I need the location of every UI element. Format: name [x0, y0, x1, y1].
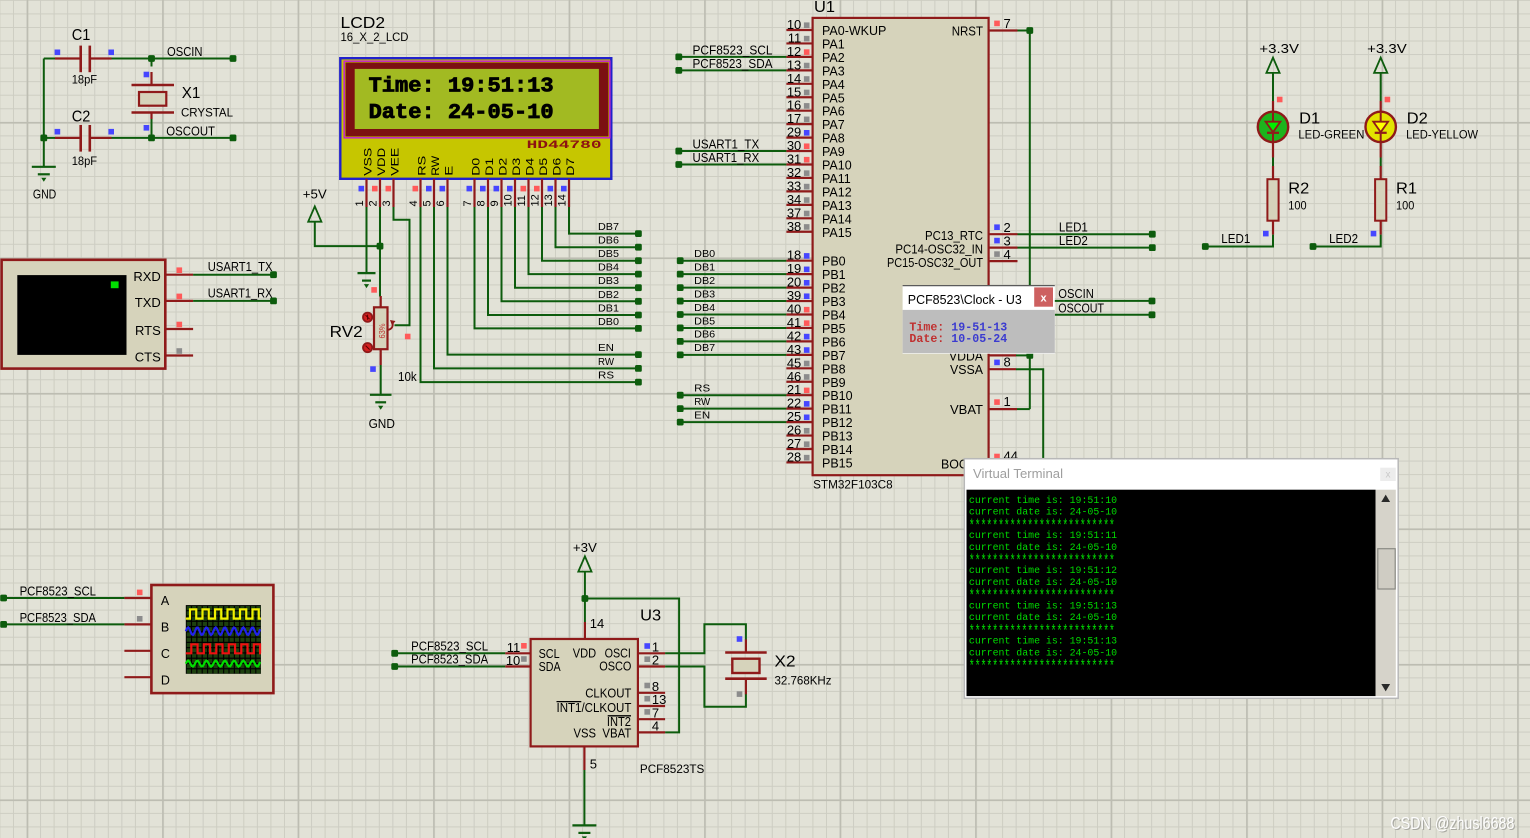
U1 pin 3 marker — [994, 238, 1000, 244]
wire USART1_TX to U1 PA9 — [679, 150, 787, 152]
svg-text:DB3: DB3 — [598, 275, 619, 287]
svg-text:100: 100 — [1396, 201, 1414, 213]
svg-text:PA6: PA6 — [822, 105, 845, 119]
svg-text:PB13: PB13 — [822, 430, 853, 444]
RV2 bottom pin marker — [370, 366, 376, 372]
wire OSCO to X2 bottom — [665, 667, 746, 707]
svg-text:RS: RS — [417, 156, 429, 176]
U1 pin 40 stub (PB4) — [786, 313, 812, 315]
LCD2 pin 3 marker — [386, 186, 392, 192]
svg-text:LED2: LED2 — [1059, 234, 1088, 248]
R1 bottom marker — [1371, 231, 1377, 237]
svg-text:D2: D2 — [1407, 111, 1428, 128]
svg-text:PB6: PB6 — [822, 335, 846, 349]
X2 top pin marker — [737, 636, 743, 642]
terminal pin marker TXD — [177, 294, 183, 300]
U1 pin 11 stub (PA1) — [786, 42, 812, 44]
svg-text:9: 9 — [489, 200, 501, 206]
svg-text:PB4: PB4 — [822, 309, 846, 323]
svg-text:4: 4 — [652, 719, 659, 734]
oscilloscope trace D green — [186, 661, 260, 667]
svg-text:+5V: +5V — [303, 187, 328, 201]
terminal pin marker RTS — [177, 322, 183, 328]
crystal X1 — [132, 59, 175, 138]
wire DB7 from LCD pin — [569, 207, 638, 234]
node RS wire start right fan — [677, 392, 684, 399]
U1 pin 33 stub (PA12) — [786, 190, 812, 192]
svg-text:38: 38 — [787, 219, 801, 234]
svg-text:x: x — [1041, 292, 1048, 304]
svg-text:C: C — [161, 647, 170, 661]
U1 pin 45 marker — [804, 361, 810, 367]
svg-text:PA14: PA14 — [822, 212, 852, 226]
U3 pin 1 marker — [644, 643, 650, 649]
node OSCIN wire end near U1 — [1149, 298, 1156, 305]
U1 pin 2 stub (PC13) — [989, 233, 1018, 235]
wire USART1_RX to U1 PA10 — [679, 164, 787, 166]
capacitor C2 — [55, 125, 112, 152]
svg-text:current date is: 24-05-10: current date is: 24-05-10 — [969, 647, 1117, 658]
RV2 knob top — [363, 313, 372, 322]
node OSCIN wire end — [230, 55, 237, 62]
LCD2 pin 8 stub — [487, 179, 489, 207]
svg-text:RW: RW — [430, 155, 442, 176]
svg-text:D5: D5 — [538, 158, 550, 176]
svg-text:GND: GND — [33, 188, 56, 202]
svg-text:6: 6 — [435, 200, 447, 206]
svg-text:5: 5 — [590, 757, 597, 772]
svg-text:PB1: PB1 — [822, 268, 846, 282]
svg-text:current time is: 19:51:13: current time is: 19:51:13 — [969, 601, 1117, 612]
wire VBAT to rail — [1017, 408, 1030, 410]
svg-text:*************************: ************************* — [969, 658, 1115, 677]
U1 pin 31 stub (PA10) — [786, 163, 812, 165]
svg-text:PB5: PB5 — [822, 322, 846, 336]
svg-text:14: 14 — [590, 616, 604, 631]
svg-text:OSCO: OSCO — [599, 660, 631, 674]
wire PCF8523_SDA to U3 SDA — [395, 666, 506, 668]
svg-text:PA10: PA10 — [822, 159, 852, 173]
svg-text:10-05-24: 10-05-24 — [951, 333, 1007, 346]
svg-text:PB8: PB8 — [822, 362, 846, 376]
svg-text:CSDN @zhusl6688: CSDN @zhusl6688 — [1390, 813, 1514, 833]
U1 pin 22 stub (PB11) — [786, 408, 812, 410]
svg-text:D: D — [161, 674, 170, 688]
LCD2 pin 7 marker — [467, 186, 473, 192]
svg-text:LED-YELLOW: LED-YELLOW — [1406, 130, 1478, 142]
LCD2 pin 1 marker — [359, 186, 365, 192]
C1 pin marker left — [55, 50, 61, 56]
U1 pin 32 marker — [804, 170, 810, 176]
svg-text:OSCI: OSCI — [605, 646, 631, 660]
terminal pin stub RTS — [165, 328, 193, 330]
U1 pin 20 marker — [804, 280, 810, 286]
svg-text:current date is: 24-05-10: current date is: 24-05-10 — [969, 542, 1117, 553]
terminal pin marker RXD — [177, 267, 183, 273]
svg-text:PA12: PA12 — [822, 185, 852, 199]
U1 pin 17 marker — [804, 117, 810, 123]
svg-text:RS: RS — [598, 370, 614, 382]
wire VSSA down — [1016, 369, 1043, 458]
svg-text:DB2: DB2 — [694, 275, 715, 287]
wire DB7 to U1 — [680, 354, 786, 356]
node USART1_RX wire end — [270, 298, 277, 305]
svg-text:EN: EN — [598, 342, 614, 354]
wire DB1 from LCD pin — [488, 207, 638, 315]
node EN wire start right fan — [677, 419, 684, 426]
virtual terminal text lines — [969, 495, 1117, 677]
svg-text:1: 1 — [354, 200, 366, 206]
wire RW from LCD pin — [434, 207, 638, 368]
svg-text:13: 13 — [543, 194, 555, 206]
svg-text:EN: EN — [694, 409, 710, 421]
virtual terminal window frame — [964, 459, 1398, 699]
U1 pin 27 stub (PB14) — [786, 448, 812, 450]
svg-text:R1: R1 — [1396, 181, 1417, 198]
LCD2 pin 14 stub — [568, 179, 570, 207]
svg-text:DB6: DB6 — [694, 329, 715, 341]
svg-text:VEE: VEE — [390, 148, 402, 176]
svg-text:PB7: PB7 — [822, 349, 846, 363]
svg-text:GND: GND — [369, 417, 395, 431]
U3 pin 10 marker — [521, 656, 527, 662]
svg-text:X2: X2 — [775, 654, 796, 671]
wire C2 to OSCOUT junction — [112, 137, 152, 139]
U1 pin 4 stub (PC15) — [989, 260, 1018, 262]
oscilloscope pin stub C — [124, 650, 151, 652]
wire VDD rail vertical — [1029, 31, 1031, 410]
svg-text:D3: D3 — [511, 158, 523, 176]
C2 pin marker right — [108, 129, 114, 135]
svg-text:DB7: DB7 — [694, 342, 715, 354]
svg-text:PA1: PA1 — [822, 37, 845, 51]
U1 pin 39 marker — [804, 293, 810, 299]
svg-text:LED-GREEN: LED-GREEN — [1298, 130, 1364, 142]
power +3.3V arrow for D2 — [1374, 58, 1387, 73]
node PCF8523_SDA wire start at U1 — [675, 67, 682, 74]
node junction left rail at C2 — [40, 135, 47, 142]
svg-text:PCF8523_SCL: PCF8523_SCL — [20, 584, 96, 598]
svg-text:D7: D7 — [565, 158, 577, 176]
svg-text:OSCOUT: OSCOUT — [166, 125, 215, 139]
oscilloscope trace B blue — [186, 627, 260, 635]
wire DB4 to U1 — [680, 314, 786, 316]
svg-text:USART1_RX: USART1_RX — [693, 151, 760, 165]
svg-text:current time is: 19:51:11: current time is: 19:51:11 — [969, 530, 1117, 541]
U1 pin 21 stub (PB10) — [786, 394, 812, 396]
virtual terminal close button — [1380, 468, 1396, 481]
U1 pin 41 marker — [804, 320, 810, 326]
U1 pin 44 marker — [994, 454, 1000, 460]
U1 pin 2 marker — [994, 224, 1000, 230]
wire USART1_RX from terminal TXD — [193, 300, 273, 302]
svg-text:VBAT: VBAT — [602, 727, 631, 741]
LCD2 pin 1 stub — [365, 179, 367, 207]
RV2 wiper marker — [405, 334, 411, 340]
svg-text:32.768KHz: 32.768KHz — [775, 676, 832, 688]
wire DB2 from LCD pin — [502, 207, 639, 301]
LCD2 bezel magenta edge — [344, 61, 610, 138]
power +3V arrow — [578, 556, 591, 571]
U3 pin 10 stub (SDA) — [505, 665, 530, 667]
svg-text:VSS: VSS — [574, 727, 597, 741]
svg-text:C2: C2 — [72, 109, 91, 126]
LCD2 pin 13 stub — [554, 179, 556, 207]
svg-text:CLKOUT: CLKOUT — [585, 686, 632, 700]
svg-text:PCF8523_SDA: PCF8523_SDA — [20, 611, 97, 625]
svg-text:PB3: PB3 — [822, 295, 846, 309]
svg-text:VDD: VDD — [573, 646, 596, 660]
svg-text:DB5: DB5 — [598, 248, 619, 260]
U1 pin 20 stub (PB2) — [786, 287, 812, 289]
U3 pin 8 marker — [644, 683, 650, 689]
svg-text:63%: 63% — [378, 324, 387, 339]
U1 pin 29 marker — [804, 130, 810, 136]
svg-text:5: 5 — [422, 200, 434, 206]
LCD2 pin 5 stub — [433, 179, 435, 207]
popup window PCF8523 Clock - U3 — [903, 285, 1055, 354]
wire PCF8523_SDA to U1 PA3 — [679, 69, 787, 71]
svg-text:PA11: PA11 — [822, 172, 851, 186]
U1 pin 26 stub (PB13) — [786, 434, 812, 436]
svg-text:14: 14 — [557, 194, 569, 206]
crystal X2 — [725, 639, 767, 694]
node DB0 wire start right fan — [677, 257, 684, 264]
svg-text:18pF: 18pF — [72, 156, 97, 168]
LCD2 pin 13 marker — [548, 186, 554, 192]
wire OSCI to X2 top — [665, 624, 746, 653]
C2 pin marker left — [55, 129, 61, 135]
U1 pin 28 marker — [804, 455, 810, 461]
svg-text:VSSA: VSSA — [950, 363, 984, 377]
U1 pin 40 marker — [804, 307, 810, 313]
U1 pin 13 marker — [804, 63, 810, 69]
U3 pin 13 stub — [638, 705, 665, 707]
wire DB6 to U1 — [680, 340, 786, 342]
svg-text:7: 7 — [1004, 16, 1011, 31]
U1 pin 22 marker — [804, 401, 810, 407]
C1 pin marker right — [108, 50, 114, 56]
U1 pin 45 stub (PB8) — [786, 367, 812, 369]
U1 pin 12 stub (PA2) — [786, 56, 812, 58]
node LED2 wire start — [1310, 243, 1317, 250]
U1 pin 32 stub (PA11) — [786, 177, 812, 179]
U1 pin 43 stub (PB7) — [786, 354, 812, 356]
wire RW to U1 — [680, 408, 786, 410]
U1 pin 29 stub (PA8) — [786, 137, 812, 139]
svg-text:DB3: DB3 — [694, 288, 715, 300]
svg-text:current date is: 24-05-10: current date is: 24-05-10 — [969, 507, 1117, 518]
svg-text:RV2: RV2 — [330, 324, 363, 341]
U1 pin 4 marker — [994, 251, 1000, 257]
wire LCD VEE pin3 to RV2 wiper — [394, 207, 410, 325]
wire OSCOUT stub near U1 — [1053, 314, 1150, 316]
svg-text:RW: RW — [598, 356, 614, 368]
node DB1 wire start right fan — [677, 271, 684, 278]
node +3V junction — [582, 595, 589, 602]
svg-text:DB6: DB6 — [598, 235, 619, 247]
svg-text:PB10: PB10 — [822, 389, 853, 403]
U1 pin stub VDDA — [989, 354, 1016, 356]
U1 pin 8 stub (VSSA) — [989, 368, 1016, 370]
svg-text:PB2: PB2 — [822, 282, 846, 296]
svg-text:current date is: 24-05-10: current date is: 24-05-10 — [969, 577, 1117, 588]
U1 pin 13 stub (PA3) — [786, 69, 812, 71]
svg-text:PB12: PB12 — [822, 416, 853, 430]
LCD2 pin 4 marker — [413, 186, 419, 192]
svg-text:PB9: PB9 — [822, 376, 846, 390]
LCD2 pin 7 stub — [473, 179, 475, 207]
U1 pin 46 stub (PB9) — [786, 381, 812, 383]
scope A pin marker — [137, 590, 143, 596]
LCD2 pin 9 stub — [500, 179, 502, 207]
U1 pin 37 stub (PA14) — [786, 217, 812, 219]
wire PCF8523_SCL to U3 SCL — [395, 652, 506, 654]
node DB1 wire end left fan — [635, 312, 642, 319]
U1 pin 42 marker — [804, 334, 810, 340]
D2 top pin marker — [1385, 97, 1391, 103]
svg-text:18pF: 18pF — [72, 75, 97, 87]
node OSCOUT wire end — [230, 135, 237, 142]
wire LED1 elbow to R2 — [1205, 235, 1273, 247]
wire NRST to vertical rail — [1018, 30, 1030, 32]
LCD2 pin 2 stub — [379, 179, 381, 207]
svg-text:E: E — [444, 166, 456, 176]
ground symbol below RV2 — [370, 395, 392, 403]
terminal pin stub RXD — [165, 274, 193, 276]
svg-text:VDD: VDD — [376, 148, 388, 176]
U1 pin 31 marker — [804, 157, 810, 163]
svg-text:USART1_TX: USART1_TX — [693, 138, 760, 152]
svg-text:RW: RW — [694, 396, 710, 408]
node VDDA rail junction — [1026, 352, 1033, 359]
svg-text:TXD: TXD — [135, 295, 161, 310]
ground symbol for LCD VSS — [358, 273, 376, 281]
terminal pin marker CTS — [177, 348, 183, 354]
X1 pin marker bottom — [144, 125, 150, 131]
svg-text:DB5: DB5 — [694, 315, 715, 327]
wire RS to U1 — [680, 394, 786, 396]
svg-text:28: 28 — [787, 449, 801, 464]
RV2 wiper arrow — [388, 322, 393, 331]
svg-text:1: 1 — [1004, 394, 1011, 409]
svg-text:HD44780: HD44780 — [527, 140, 602, 152]
node PCF8523_SCL wire start left — [0, 595, 7, 602]
wire PCF8523_SDA to scope B — [4, 623, 125, 625]
node DB4 wire end left fan — [635, 271, 642, 278]
U1 pin 34 marker — [804, 197, 810, 203]
wire LCD VDD pin2 down to RV2 — [379, 207, 381, 297]
node DB5 wire start right fan — [677, 325, 684, 332]
LCD2 pin 10 stub — [514, 179, 516, 207]
svg-text:X1: X1 — [182, 85, 201, 102]
svg-text:100: 100 — [1288, 201, 1306, 213]
popup close button — [1034, 287, 1053, 306]
svg-text:Time: 19:51:13: Time: 19:51:13 — [369, 75, 554, 98]
D1 top pin marker — [1277, 97, 1283, 103]
svg-text:R2: R2 — [1288, 181, 1309, 198]
ground symbol below C2 — [32, 167, 56, 175]
svg-text:DB2: DB2 — [598, 289, 619, 301]
U1 pin 19 stub (PB1) — [786, 273, 812, 275]
wire +3.3V to D1 — [1272, 73, 1274, 101]
U3 pin 14 stub (VDD) — [584, 622, 586, 639]
node OSCOUT junction at X1 bottom — [148, 135, 155, 142]
svg-text:2: 2 — [652, 653, 659, 668]
svg-text:PCF8523TS: PCF8523TS — [640, 764, 705, 776]
wire +3V down to VDD junction — [584, 572, 586, 599]
svg-text:NRST: NRST — [952, 25, 984, 39]
LCD2 pin 9 marker — [494, 186, 500, 192]
svg-text:16_X_2_LCD: 16_X_2_LCD — [341, 32, 409, 44]
node DB0 wire end left fan — [635, 325, 642, 332]
U3 pin 2 marker — [644, 656, 650, 662]
virtual terminal scrollbar — [1376, 490, 1396, 696]
svg-text:USART1_RX: USART1_RX — [208, 286, 273, 300]
svg-text:LCD2: LCD2 — [341, 15, 386, 32]
U3 pin 13 marker — [644, 696, 650, 702]
svg-text:LED2: LED2 — [1329, 232, 1358, 246]
U3 pin 7 marker — [644, 709, 650, 715]
U1 pin 38 marker — [804, 224, 810, 230]
U1 pin 46 marker — [804, 374, 810, 380]
wire DB3 from LCD pin — [515, 207, 638, 288]
oscilloscope body — [151, 585, 273, 693]
svg-text:DB0: DB0 — [694, 248, 715, 260]
LCD2 screen — [355, 69, 599, 129]
node OSCIN junction at X1 top — [148, 55, 155, 62]
node PCF8523_SCL wire start at U3 — [391, 650, 398, 657]
U1 pin 14 stub (PA4) — [786, 83, 812, 85]
svg-text:10: 10 — [503, 194, 515, 206]
LCD2 pin 5 marker — [426, 186, 432, 192]
wire C1 to OSCIN junction — [112, 58, 152, 60]
virtual terminal instrument screen — [17, 275, 126, 355]
LCD2 bezel — [346, 63, 609, 137]
node RW wire end left fan — [635, 365, 642, 372]
svg-text:VBAT: VBAT — [950, 403, 983, 417]
virtual terminal instrument body — [2, 260, 166, 369]
wire DB3 to U1 — [680, 300, 786, 302]
U1 pin 37 marker — [804, 211, 810, 217]
svg-text:D4: D4 — [525, 158, 537, 176]
wire OSCIN stub near U1 — [1053, 300, 1150, 302]
U1 pin 3 stub (PC14) — [989, 247, 1018, 249]
svg-text:2: 2 — [368, 200, 380, 206]
svg-text:OSCIN: OSCIN — [1058, 287, 1094, 301]
svg-text:SDA: SDA — [539, 660, 562, 674]
wire DB2 to U1 — [680, 287, 786, 289]
wire DB1 to U1 — [680, 273, 786, 275]
node junction +5V at VDD wire — [377, 243, 384, 250]
U1 pin 42 stub (PB6) — [786, 340, 812, 342]
LCD2 pin 8 marker — [480, 186, 486, 192]
U1 pin 44 stub (BOOT0) — [989, 462, 1017, 464]
U3 pin 2 stub — [638, 665, 665, 667]
svg-text:RTS: RTS — [135, 323, 161, 338]
U1 pin 34 stub (PA13) — [786, 204, 812, 206]
svg-text:+3V: +3V — [573, 541, 598, 555]
svg-text:7: 7 — [462, 200, 474, 206]
svg-text:PCF8523_SDA: PCF8523_SDA — [411, 653, 489, 667]
power +5V arrow — [308, 206, 321, 221]
U3 pin 8 stub — [638, 692, 665, 694]
svg-text:3: 3 — [381, 200, 393, 206]
X2 bottom pin marker — [737, 691, 743, 697]
node LED1 wire start — [1202, 243, 1209, 250]
U1 pin 1 marker — [994, 399, 1000, 405]
svg-text:PA15: PA15 — [822, 226, 852, 240]
